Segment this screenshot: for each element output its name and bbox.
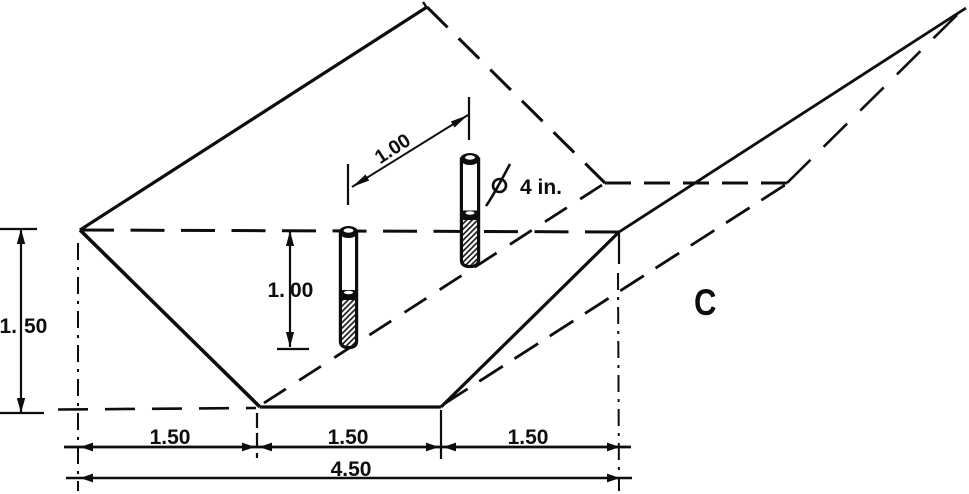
extension line below R (solid then dash-dot vertical) [618, 233, 619, 491]
tube 1 (left pile) [339, 226, 358, 348]
dimension row1 segment 2 (1.50) [257, 443, 441, 452]
label 4 in. [520, 176, 562, 199]
dimension: middle vertical 1.00 [277, 231, 309, 349]
svg-text:1.50: 1.50 [508, 426, 549, 449]
dimension row1 segment 1 (1.50) [64, 443, 257, 452]
svg-text:C: C [694, 283, 716, 324]
label 4.50 [331, 458, 372, 481]
edge: front-left slope L-B1 (solid) [80, 230, 260, 407]
hidden edge: back-right slope E-T (dashed) [787, 15, 957, 183]
svg-text:50: 50 [24, 315, 47, 338]
tube 2 (right pile) [460, 153, 480, 267]
hidden edge: back-left slope A-D (dashed) [427, 7, 605, 183]
svg-text:1.50: 1.50 [150, 426, 191, 449]
svg-text:1.: 1. [0, 315, 17, 338]
hidden edge: back bottom D-E (dashed) [605, 182, 787, 185]
diameter symbol (phi) [486, 164, 510, 206]
svg-text:00: 00 [290, 279, 313, 302]
svg-text:4 in.: 4 in. [520, 176, 562, 199]
label 1.50 (row1 seg1) [150, 426, 191, 449]
svg-text:1.50: 1.50 [328, 426, 369, 449]
svg-text:4.50: 4.50 [331, 458, 372, 481]
edge: trench bottom front B1-B2 (solid) [260, 405, 441, 408]
label 1.50 left [0, 315, 47, 338]
extension line below L (dash-dot vertical) [77, 243, 79, 491]
edge: front-right slope B2-R (solid) [441, 232, 619, 407]
hidden edge: ground line L-R (dashed) [80, 230, 619, 232]
svg-text:1.: 1. [267, 279, 285, 302]
edge: back-left top edge L-A (solid) [80, 7, 427, 230]
label C [694, 283, 716, 324]
dimension: left vertical 1.50 [0, 229, 44, 413]
edge: right top edge R-T (solid) [619, 8, 966, 232]
hidden edge: trench bottom left B1-D (dashed) [264, 185, 602, 403]
extension dashes left of B1 along trench bottom level [58, 408, 256, 410]
label 1.50 (row1 seg3) [508, 426, 549, 449]
dimension row2 (4.50) [66, 474, 632, 483]
label 1.50 (row1 seg2) [328, 426, 369, 449]
label 1.00 middle [267, 279, 313, 302]
extension line below B1 [256, 413, 258, 458]
extension line below B2 [440, 410, 442, 459]
apex tick [423, 2, 427, 8]
dimension: diagonal tube spacing 1.00 [348, 97, 469, 205]
label 1.00 diagonal [371, 129, 415, 168]
dimension row1 segment 3 (1.50) [441, 443, 631, 452]
hidden edge: trench bottom right B2-E (dashed) [444, 185, 785, 404]
